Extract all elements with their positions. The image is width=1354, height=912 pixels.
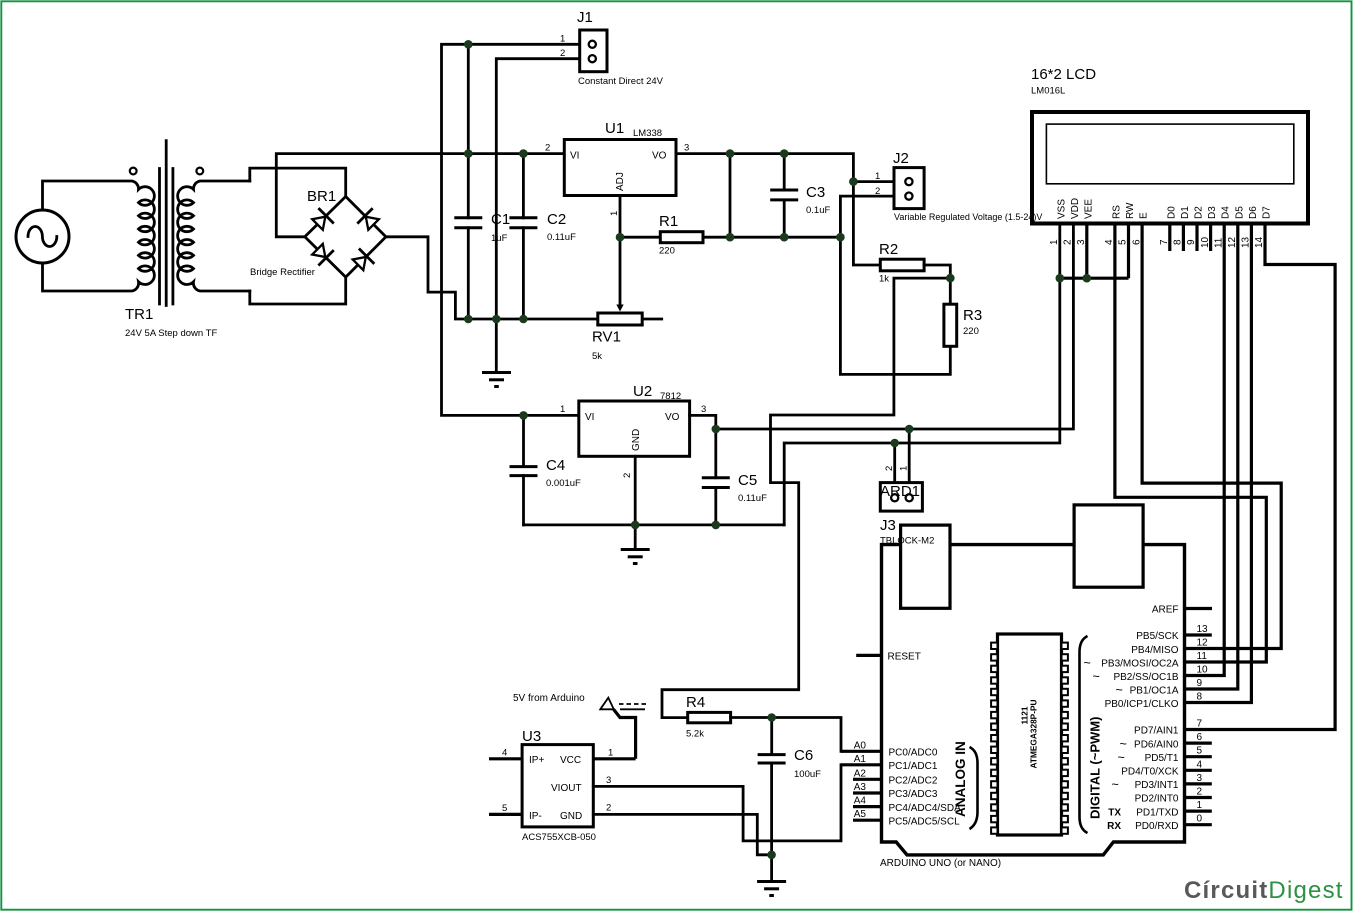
svg-text:3: 3 xyxy=(1197,773,1203,784)
svg-text:220: 220 xyxy=(659,246,675,257)
svg-text:BR1: BR1 xyxy=(307,188,336,205)
svg-text:~: ~ xyxy=(1084,656,1091,670)
svg-text:ANALOG IN: ANALOG IN xyxy=(953,741,968,817)
wire LCD D0 stub xyxy=(1168,224,1171,252)
svg-text:PD3/INT1: PD3/INT1 xyxy=(1135,780,1179,791)
svg-text:D3: D3 xyxy=(1207,206,1218,219)
svg-text:J2: J2 xyxy=(893,150,909,167)
wire R1 right to rail link xyxy=(703,236,730,239)
svg-text:7: 7 xyxy=(1197,719,1203,730)
svg-text:ARDUINO UNO (or NANO): ARDUINO UNO (or NANO) xyxy=(880,858,1001,869)
transformer phase dots xyxy=(130,168,137,175)
svg-text:VO: VO xyxy=(652,151,667,162)
wire R4 right to C6 junction and A0 xyxy=(731,718,841,752)
Arduino right pin names xyxy=(1101,631,1179,832)
svg-text:5V from Arduino: 5V from Arduino xyxy=(513,693,585,704)
wire pin 6 stub xyxy=(1185,741,1212,744)
svg-text:U3: U3 xyxy=(522,728,541,745)
wire J2 pin2 to down rail xyxy=(840,196,950,374)
svg-text:24V 5A Step down TF: 24V 5A Step down TF xyxy=(125,328,217,339)
wire LCD RS to Arduino pin 11 xyxy=(1115,224,1266,663)
svg-text:ARD1: ARD1 xyxy=(880,483,920,500)
wire pin 0 stub xyxy=(1185,823,1212,826)
diode BR1 top-right xyxy=(358,209,379,230)
svg-text:D0: D0 xyxy=(1166,206,1177,219)
resistor R1 body xyxy=(660,232,703,243)
wire A2 stub xyxy=(853,778,882,781)
DIGITAL bracket xyxy=(1080,636,1088,833)
wire vertical link VO rail to ADJ rail xyxy=(729,154,732,238)
svg-text:PB1/OC1A: PB1/OC1A xyxy=(1130,686,1179,697)
wire C2 top vertical xyxy=(522,154,525,218)
wire A3 stub xyxy=(853,791,882,794)
svg-text:VO: VO xyxy=(665,412,680,423)
svg-text:1k: 1k xyxy=(879,274,889,285)
svg-text:1: 1 xyxy=(608,748,613,759)
svg-text:PB5/SCK: PB5/SCK xyxy=(1136,631,1179,642)
svg-text:R2: R2 xyxy=(879,241,898,258)
wire C5 bottom xyxy=(714,488,717,525)
svg-text:3: 3 xyxy=(606,775,611,786)
svg-text:2: 2 xyxy=(1063,239,1074,245)
svg-text:DIGITAL (~PWM): DIGITAL (~PWM) xyxy=(1088,717,1103,819)
wire ground stub below rail xyxy=(634,525,637,550)
svg-text:4: 4 xyxy=(502,748,507,759)
wire AC to transformer primary + primary winding TR1 xyxy=(43,181,155,291)
capacitor C5 xyxy=(702,478,730,488)
svg-text:12: 12 xyxy=(1197,638,1209,649)
svg-text:0.1uF: 0.1uF xyxy=(806,205,830,216)
wire LCD D4 to Arduino pin 10 xyxy=(1185,224,1225,676)
diode BR1 bottom-right xyxy=(353,250,374,271)
wire U2 GND pin down xyxy=(634,456,637,525)
svg-text:~: ~ xyxy=(1093,670,1100,684)
wire AD1 pin1 stub xyxy=(908,429,911,484)
svg-text:PC3/ADC3: PC3/ADC3 xyxy=(889,789,938,800)
wire C4 top xyxy=(522,415,525,466)
wire pin 1 stub xyxy=(1185,809,1212,812)
svg-text:D5: D5 xyxy=(1234,206,1245,219)
capacitor C3 xyxy=(770,190,798,200)
wire C4 bottom xyxy=(522,476,525,525)
svg-text:VI: VI xyxy=(570,151,579,162)
wire R2 right to R2/R3 junction xyxy=(924,265,950,278)
tilde marks for PWM pins xyxy=(1084,656,1127,792)
svg-text:~: ~ xyxy=(1112,778,1119,792)
svg-text:PB0/ICP1/CLKO: PB0/ICP1/CLKO xyxy=(1105,699,1179,710)
svg-text:2: 2 xyxy=(560,48,565,59)
wire +12V rail from C5 to LCD VDD xyxy=(716,224,1074,430)
wire pin 2 stub xyxy=(1185,796,1212,799)
current sensor U3 box xyxy=(522,745,593,827)
resistor R3 body xyxy=(944,304,957,346)
svg-text:1uF: 1uF xyxy=(491,233,508,244)
svg-text:RS: RS xyxy=(1111,205,1122,219)
svg-text:C3: C3 xyxy=(806,184,825,201)
svg-text:7812: 7812 xyxy=(660,391,681,402)
wire U1 ADJ down to RV1 wiper xyxy=(619,196,622,307)
ground symbol (input filter) xyxy=(482,373,511,387)
svg-text:C2: C2 xyxy=(547,211,566,228)
wire pin 5 stub xyxy=(1185,755,1212,758)
svg-text:0.001uF: 0.001uF xyxy=(546,478,581,489)
regulator U2 7812 box xyxy=(579,401,690,456)
svg-text:Variable Regulated Voltage (1: Variable Regulated Voltage (1.5-24)V xyxy=(894,212,1042,222)
svg-text:PD5/T1: PD5/T1 xyxy=(1145,753,1179,764)
svg-text:0: 0 xyxy=(1197,814,1203,825)
svg-text:D4: D4 xyxy=(1221,206,1232,219)
svg-text:2: 2 xyxy=(606,803,611,814)
svg-text:5.2k: 5.2k xyxy=(686,729,704,740)
svg-text:8: 8 xyxy=(1197,692,1203,703)
svg-text:PB3/MOSI/OC2A: PB3/MOSI/OC2A xyxy=(1101,658,1179,669)
wire LCD E to Arduino pin 12 xyxy=(1142,224,1281,649)
wire A4 stub xyxy=(853,805,882,808)
svg-text:RW: RW xyxy=(1125,202,1136,219)
wire LCD D5 to Arduino pin 9 xyxy=(1185,224,1238,690)
svg-text:PC0/ADC0: PC0/ADC0 xyxy=(889,748,938,759)
svg-text:PD6/AIN0: PD6/AIN0 xyxy=(1134,739,1179,750)
svg-text:A1: A1 xyxy=(854,754,867,765)
svg-text:3: 3 xyxy=(684,143,689,154)
wire U1 VO to J2 pin1 corner xyxy=(676,154,853,182)
svg-text:PB2/SS/OC1B: PB2/SS/OC1B xyxy=(1113,672,1178,683)
wire J1 pin2 down to ground xyxy=(496,59,579,373)
svg-text:A4: A4 xyxy=(854,796,867,807)
diode BR1 bottom-left xyxy=(312,244,333,265)
svg-text:1: 1 xyxy=(1049,239,1060,245)
svg-text:RV1: RV1 xyxy=(592,329,621,346)
diode BR1 top-left xyxy=(312,209,333,230)
svg-text:D2: D2 xyxy=(1194,206,1205,219)
svg-text:3: 3 xyxy=(701,404,706,415)
svg-text:1: 1 xyxy=(560,404,565,415)
svg-text:TBLOCK-M2: TBLOCK-M2 xyxy=(880,536,934,547)
svg-text:R3: R3 xyxy=(963,307,982,324)
svg-text:~: ~ xyxy=(1118,751,1125,765)
svg-text:VEE: VEE xyxy=(1083,199,1094,219)
ATmega328 chip pins right xyxy=(1062,643,1068,834)
wire J2 pin1 down to R2 xyxy=(853,182,880,265)
svg-text:11: 11 xyxy=(1197,651,1208,662)
svg-text:RESET: RESET xyxy=(888,652,921,663)
wire U2 VO to C5 xyxy=(690,415,716,477)
svg-text:TX: TX xyxy=(1108,807,1121,818)
svg-text:R1: R1 xyxy=(659,213,678,230)
svg-text:CírcuitDigest: CírcuitDigest xyxy=(1184,877,1344,904)
svg-text:J3: J3 xyxy=(880,517,896,534)
svg-text:C6: C6 xyxy=(794,747,813,764)
capacitor C6 xyxy=(758,755,786,763)
svg-text:PD0/RXD: PD0/RXD xyxy=(1135,821,1178,832)
wire secondary top to bridge top corner xyxy=(250,168,346,196)
svg-text:U1: U1 xyxy=(605,120,624,137)
capacitor C1 xyxy=(454,218,482,228)
regulator U1 LM338 box xyxy=(564,140,676,196)
wire C1 bottom vertical xyxy=(467,228,470,319)
svg-text:RX: RX xyxy=(1107,821,1121,832)
resistor R4 body xyxy=(688,712,731,722)
svg-text:PD7/AIN1: PD7/AIN1 xyxy=(1134,726,1179,737)
svg-text:TR1: TR1 xyxy=(125,306,153,323)
svg-text:5: 5 xyxy=(1197,746,1203,757)
Arduino left pin names xyxy=(889,748,962,828)
wire bridge right corner down to 0V rail / RV1 rail xyxy=(386,237,662,319)
wire ADJ junction to R1 left xyxy=(620,236,660,239)
wire C1 top vertical xyxy=(467,44,470,218)
wire LCD D6 to Arduino pin 8 xyxy=(1185,224,1252,703)
connector J1 xyxy=(580,30,607,72)
ANALOG IN bracket xyxy=(970,747,978,829)
svg-text:0.11uF: 0.11uF xyxy=(547,232,576,243)
svg-text:LM016L: LM016L xyxy=(1031,86,1065,97)
svg-text:PC1/ADC1: PC1/ADC1 xyxy=(889,761,938,772)
wire pin 4 stub xyxy=(1185,769,1212,772)
svg-text:E: E xyxy=(1139,212,1150,219)
wire LCD D7 to Arduino pin 7 xyxy=(1185,224,1336,730)
svg-text:5k: 5k xyxy=(592,351,602,362)
svg-text:Bridge Rectifier: Bridge Rectifier xyxy=(250,267,315,278)
wire C3 bottom vertical xyxy=(783,200,786,237)
svg-text:100uF: 100uF xyxy=(794,769,821,780)
Arduino USB rectangle xyxy=(1074,505,1143,587)
svg-text:A0: A0 xyxy=(854,740,867,751)
connector J3 TBLOCK-M2 (ARD1) xyxy=(880,483,922,512)
transformer TR1 core xyxy=(160,141,173,306)
5V power flag dashes xyxy=(619,704,647,709)
resistor R2 body xyxy=(880,259,924,271)
wire pin 13 stub xyxy=(1185,633,1212,636)
svg-text:R4: R4 xyxy=(686,694,705,711)
svg-text:1: 1 xyxy=(899,466,910,471)
svg-text:220: 220 xyxy=(963,326,979,337)
wire R3 top xyxy=(949,278,952,304)
svg-text:1: 1 xyxy=(1197,800,1203,811)
svg-text:PD1/TXD: PD1/TXD xyxy=(1136,807,1178,818)
wire LCD D2 stub xyxy=(1195,224,1198,252)
svg-text:IP-: IP- xyxy=(529,811,542,822)
svg-text:13: 13 xyxy=(1197,624,1209,635)
svg-text:U2: U2 xyxy=(633,383,652,400)
svg-text:4: 4 xyxy=(1197,759,1203,770)
Arduino power jack rectangle xyxy=(901,525,950,608)
svg-text:A2: A2 xyxy=(854,768,867,779)
svg-text:A5: A5 xyxy=(854,809,867,820)
wire J2 pin1 xyxy=(853,180,894,183)
svg-text:PB4/MISO: PB4/MISO xyxy=(1131,645,1178,656)
Arduino board outline ARD1 xyxy=(882,545,1185,855)
wire C6 top xyxy=(770,718,773,755)
svg-text:C1: C1 xyxy=(491,211,510,228)
ATmega328 chip pins left xyxy=(991,643,997,834)
svg-text:5: 5 xyxy=(502,803,507,814)
wire AREF stub xyxy=(1185,607,1213,610)
wire C6 bottom xyxy=(770,763,773,855)
svg-text:10: 10 xyxy=(1197,665,1209,676)
ATmega328 chip body xyxy=(998,634,1062,835)
wire secondary bottom to bridge bottom corner xyxy=(250,277,346,304)
svg-text:PD2/INT0: PD2/INT0 xyxy=(1135,794,1179,805)
wire bridge left corner to +24V rail (to U1 VI) xyxy=(276,154,564,237)
svg-text:VSS: VSS xyxy=(1056,199,1067,219)
wire A0 pin stub xyxy=(841,750,882,753)
bridge rectifier BR1 diamond xyxy=(305,197,386,278)
svg-text:VIOUT: VIOUT xyxy=(551,783,582,794)
svg-text:9: 9 xyxy=(1197,678,1203,689)
svg-text:ACS755XCB-050: ACS755XCB-050 xyxy=(522,832,596,843)
wire C2 bottom vertical xyxy=(522,228,525,319)
svg-text:J1: J1 xyxy=(577,9,593,26)
wire LCD D1 stub xyxy=(1182,224,1185,252)
wire ground stub below C6 xyxy=(770,855,773,882)
svg-text:2: 2 xyxy=(545,143,550,154)
wire U3 VIOUT to A1 xyxy=(593,765,841,841)
svg-text:IP+: IP+ xyxy=(529,755,544,766)
svg-text:6: 6 xyxy=(1197,732,1203,743)
svg-text:ATMEGA328P-PU: ATMEGA328P-PU xyxy=(1029,699,1039,768)
wire GND rail link to LCD VSS xyxy=(784,224,1060,525)
svg-text:GND: GND xyxy=(560,811,582,822)
wire VSS/VEE/RW ground tie xyxy=(1060,277,1129,280)
svg-text:VDD: VDD xyxy=(1070,198,1081,219)
ground symbol (sensor/C6) xyxy=(757,882,786,896)
svg-text:C5: C5 xyxy=(738,472,757,489)
wire ADJ rail to J2 pin2 vertical xyxy=(730,236,840,239)
wire R2R3 junction to R4 net xyxy=(662,278,950,717)
svg-text:D1: D1 xyxy=(1180,206,1191,219)
svg-text:2: 2 xyxy=(884,466,895,471)
wire U3 GND to ground junction xyxy=(593,814,771,854)
wire pin 3 stub xyxy=(1185,782,1212,785)
svg-text:LM338: LM338 xyxy=(633,128,662,139)
capacitor C4 xyxy=(510,467,538,476)
LCD LM016L outer box xyxy=(1032,112,1308,224)
wire A5 stub xyxy=(853,819,882,822)
svg-text:Constant Direct 24V: Constant Direct 24V xyxy=(578,76,664,87)
capacitor C2 xyxy=(509,218,537,228)
wire U3 VCC to 5V flag xyxy=(593,709,635,759)
connector J2 xyxy=(894,168,924,209)
svg-text:A3: A3 xyxy=(854,782,867,793)
svg-text:ADJ: ADJ xyxy=(615,172,626,191)
transformer TR1 secondary winding + wires to bridge xyxy=(178,181,250,291)
potentiometer RV1 body xyxy=(598,313,642,325)
5V power flag triangle xyxy=(600,698,614,710)
svg-text:D6: D6 xyxy=(1248,206,1259,219)
wire LCD VEE stub xyxy=(1085,224,1088,279)
AC source V1 xyxy=(16,210,69,263)
svg-text:2: 2 xyxy=(1197,787,1203,798)
svg-text:1: 1 xyxy=(609,211,620,216)
svg-text:PC4/ADC4/SDA: PC4/ADC4/SDA xyxy=(889,803,962,814)
svg-text:~: ~ xyxy=(1116,683,1123,697)
svg-text:PD4/T0/XCK: PD4/T0/XCK xyxy=(1121,767,1179,778)
RV1 wiper arrowhead xyxy=(616,305,623,312)
svg-text:GND: GND xyxy=(631,429,642,451)
wire U3 IP+ stub xyxy=(489,757,522,760)
svg-text:VI: VI xyxy=(585,412,594,423)
wire LCD D3 stub xyxy=(1209,224,1212,252)
svg-text:0.11uF: 0.11uF xyxy=(738,493,767,504)
wire AD1 pin2 stub xyxy=(893,443,896,484)
svg-text:D7: D7 xyxy=(1262,206,1273,219)
svg-text:C4: C4 xyxy=(546,457,565,474)
wire RESET stub xyxy=(856,654,881,657)
wire J1 pin1 to +24 and down to U2 VI xyxy=(442,44,580,415)
wire C3 top vertical xyxy=(783,154,786,190)
svg-text:PC5/ADC5/SCL: PC5/ADC5/SCL xyxy=(889,816,961,827)
wire U3 IP- stub xyxy=(489,813,522,816)
wire LCD RW stub xyxy=(1127,224,1130,279)
svg-text:AREF: AREF xyxy=(1152,605,1179,616)
svg-text:2: 2 xyxy=(622,473,633,478)
LCD screen inner rect xyxy=(1046,124,1293,184)
wire U2 ground rail xyxy=(524,524,785,527)
svg-text:1: 1 xyxy=(560,34,565,45)
ground symbol (12V regulator) xyxy=(621,550,650,564)
svg-text:PC2/ADC2: PC2/ADC2 xyxy=(889,776,938,787)
svg-text:VCC: VCC xyxy=(560,755,581,766)
wire A1 pin stub xyxy=(841,763,882,766)
svg-text:~: ~ xyxy=(1120,737,1127,751)
svg-text:16*2 LCD: 16*2 LCD xyxy=(1031,66,1096,83)
